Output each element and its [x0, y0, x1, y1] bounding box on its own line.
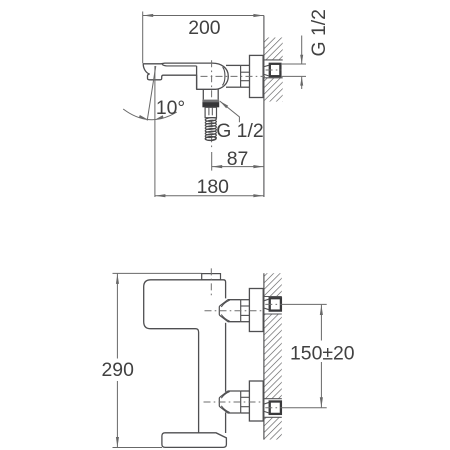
- union nut chamfer arcs: [221, 392, 229, 399]
- dimension 200 line: [143, 15, 264, 17]
- eccentric center line: [265, 407, 281, 409]
- body cap inner rim arc top view: [222, 67, 225, 85]
- wall hatching bottom view block 1: [264, 273, 282, 296]
- body left edge top view: [196, 66, 198, 89]
- union nut pipe top view: [226, 64, 241, 66]
- base plate chamfer line: [216, 433, 226, 438]
- G 1/2 vertical text: [308, 9, 330, 56]
- threaded hose coil: [205, 117, 217, 122]
- union threaded stub lines: [241, 390, 250, 392]
- union nut hex profile: [228, 391, 241, 413]
- G 1/2 dim line with outside arrows: [301, 36, 303, 64]
- dimension 150 extension line upper: [282, 303, 327, 305]
- wall hatching top view upper block: [264, 38, 283, 60]
- dimension 150 line: [320, 305, 322, 341]
- eccentric center line top view: [266, 69, 282, 71]
- svg-text:10°: 10°: [156, 97, 185, 119]
- svg-text:87: 87: [227, 148, 249, 170]
- faucet spout and body outline top view: [143, 63, 228, 89]
- svg-text:150±20: 150±20: [290, 343, 355, 365]
- eccentric neck lines: [264, 402, 269, 404]
- union nut hex profile: [228, 300, 241, 322]
- horizontal center line top view: [201, 75, 266, 77]
- vertical center line top view: [211, 60, 213, 149]
- eccentric union square fitting top view: [270, 64, 281, 76]
- dimension 180 line: [155, 195, 264, 197]
- svg-text:180: 180: [197, 176, 230, 198]
- union nut chamfer arcs: [221, 300, 229, 307]
- union nut divider top view: [240, 65, 242, 87]
- outlet stub top view: [202, 89, 204, 99]
- dimension 290 line: [116, 274, 118, 359]
- outlet lower cylinder: [205, 107, 216, 117]
- G 1/2 leader arrow: [220, 101, 240, 122]
- dimension 200 left extension line: [142, 12, 144, 64]
- wall face line top view: [263, 16, 265, 198]
- union nut divider: [240, 391, 242, 413]
- wall hatching bottom view block 2: [264, 314, 282, 399]
- dimension 87 line: [212, 166, 264, 168]
- upper union center line bottom view: [205, 310, 264, 312]
- G 1/2 dim extension lines: [281, 63, 306, 65]
- base plate bottom view: [162, 433, 227, 448]
- wall hole edge lines bottom view: [264, 296, 282, 298]
- angle vertical reference / extension line: [154, 66, 156, 197]
- eccentric square fitting: [270, 298, 281, 310]
- lower union center line bottom view: [204, 401, 264, 403]
- union wall flange: [249, 289, 263, 332]
- dimension 290 extension line top: [113, 272, 202, 274]
- svg-text:G 1/2: G 1/2: [216, 120, 263, 142]
- spout parting line top view: [162, 64, 197, 66]
- dimension 150 extension line lower: [282, 407, 327, 409]
- union nut divider: [240, 300, 242, 322]
- union threaded stub lines: [241, 299, 250, 301]
- dimension 290 extension line bottom: [113, 447, 163, 449]
- svg-text:G 1/2: G 1/2: [308, 9, 330, 56]
- faucet body outline bottom view: [144, 280, 226, 433]
- eccentric square fitting: [270, 402, 281, 414]
- outlet dark check-valve band: [202, 100, 219, 103]
- eccentric neck lines top view: [264, 65, 269, 66]
- vertical center line bottom view: [210, 268, 212, 296]
- threaded stub lines top view: [241, 64, 250, 66]
- wall hatching top view lower block: [264, 78, 283, 102]
- wall hole edge lines top view: [264, 59, 283, 61]
- svg-text:290: 290: [102, 359, 135, 381]
- dimension 87 extension line: [211, 152, 213, 171]
- angle arc: [123, 109, 177, 120]
- body column right edge segments bottom view: [225, 323, 227, 392]
- wall face line bottom view: [263, 273, 265, 439]
- union wall flange: [249, 381, 263, 421]
- handle tab bottom view: [202, 274, 221, 280]
- eccentric neck lines: [264, 299, 269, 301]
- eccentric center line: [265, 303, 281, 305]
- svg-text:200: 200: [188, 17, 221, 39]
- wall hatching bottom view block 3: [264, 417, 282, 439]
- wall flange escutcheon top view: [250, 55, 264, 97]
- angle slanted line: [147, 66, 156, 121]
